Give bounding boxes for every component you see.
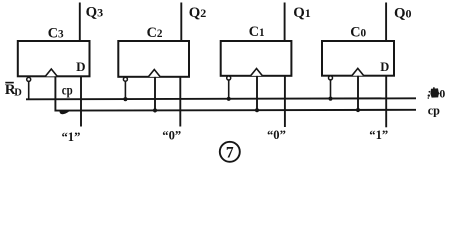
svg-text:Q1: Q1 [293,5,311,21]
wire C3 RD stem [28,82,30,100]
wire C2 RD stem [124,81,126,99]
reset bubble (C1 RD pin) [227,76,231,80]
wire Q3 output [79,3,81,42]
svg-text:“0”: “0” [267,128,286,142]
svg-text:C1: C1 [249,24,265,40]
wire C1 D input from "0" [284,76,286,127]
flip-flop C3 body [18,41,90,76]
clock edge triangle (C0 CP pin) [352,68,364,75]
svg-text:cp: cp [62,82,73,98]
junction dot C2 RD on reset bus [123,97,127,101]
junction dot C2 CP on clock bus [153,108,157,112]
clock edge triangle (C3 CP pin) [45,69,57,76]
figure number 7 (circled) [220,142,240,162]
svg-text:0: 0 [439,87,445,101]
wire C3 D input from "1" [80,76,82,126]
label RD-bar (async reset input) [5,82,23,99]
svg-text:Q0: Q0 [394,5,412,21]
svg-text:C2: C2 [147,25,163,41]
wire C0 RD stem [330,80,332,99]
wire reset bus (zhi-0 line) [26,98,416,99]
arrow marker on clock bus [60,110,70,114]
wire Q0 output [385,3,387,42]
wire C1 RD stem [228,80,230,99]
flip-flop C1 body [221,41,292,76]
junction dot C0 CP on clock bus [356,108,360,112]
wire C2 D input from "0" [179,77,181,127]
reset bubble (C0 RD pin) [329,76,333,80]
wire C2 CP stem [154,77,156,111]
junction dot C1 CP on clock bus [255,108,259,112]
clock edge triangle (C1 CP pin) [251,69,263,76]
svg-text:“0”: “0” [162,128,181,142]
clock edge triangle (C2 CP pin) [148,70,160,77]
svg-text:Q2: Q2 [189,5,207,21]
svg-text:7: 7 [226,144,234,161]
reset bubble (C3 RD pin) [27,77,31,81]
junction dot C1 RD on reset bus [227,97,231,101]
junction dot C0 RD on reset bus [328,97,332,101]
svg-text:cp: cp [428,104,440,118]
svg-text:C0: C0 [350,24,366,40]
svg-text:D: D [380,60,389,74]
reset bubble (C2 RD pin) [123,77,127,81]
wire Q2 output [180,3,182,42]
svg-text:“1”: “1” [62,130,81,144]
flip-flop C2 body [118,41,189,77]
wire C1 CP stem [256,76,258,111]
svg-text:Q3: Q3 [86,5,104,21]
wire Q1 output [284,3,286,42]
wire C0 CP stem [357,76,359,111]
svg-text:“1”: “1” [369,128,388,142]
svg-text:C3: C3 [48,25,64,41]
label zhi-0 (reset bus name) [428,87,446,101]
wire C0 D input from "1" [385,76,387,128]
flip-flop C0 body [322,41,394,76]
wire clock bus with C3 CP stem [55,76,416,110]
svg-text:D: D [76,59,85,74]
